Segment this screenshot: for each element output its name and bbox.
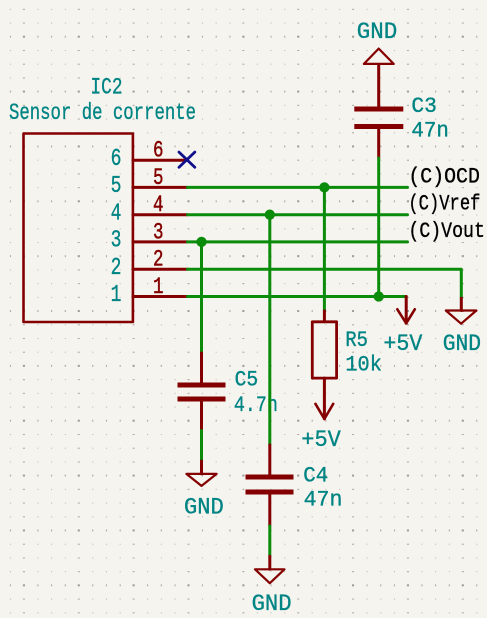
wire pin2 row to right then down (188, 269, 462, 298)
wire R5 column (323, 187, 326, 311)
junction on pin5 row at R5 column (319, 182, 329, 192)
wire pin1 row to +5V (188, 295, 407, 298)
svg-text:GND: GND (252, 591, 292, 618)
svg-text:GND: GND (443, 331, 481, 358)
pin 4 of IC2 (133, 213, 188, 216)
svg-text:6: 6 (153, 138, 164, 165)
junction on pin1 row at C3 column (374, 291, 384, 301)
IC IC2 body (Sensor de corrente) (24, 134, 133, 323)
wire pin4 row to label (C)Vref (188, 213, 408, 216)
svg-text:2: 2 (111, 255, 122, 282)
svg-text:3: 3 (153, 219, 164, 246)
power symbol GND (top, above C3) (364, 49, 394, 107)
svg-text:Sensor de corrente: Sensor de corrente (9, 100, 196, 127)
svg-text:4: 4 (111, 200, 122, 227)
svg-text:10k: 10k (345, 352, 382, 377)
power symbol GND (bottom, below C4) (255, 556, 285, 583)
svg-text:5: 5 (153, 165, 164, 192)
capacitor C5 (178, 353, 226, 431)
svg-text:5: 5 (111, 173, 122, 200)
svg-text:GND: GND (357, 19, 398, 46)
wire C4 column (268, 215, 271, 445)
pin 3 of IC2 (133, 240, 188, 243)
pin 6 of IC2 (133, 159, 188, 162)
junction on pin4 row at C4 column (265, 210, 275, 220)
pin 2 of IC2 (133, 268, 188, 271)
svg-text:+5V: +5V (383, 331, 422, 358)
wire C3 column down to pin1 row (377, 158, 380, 297)
svg-text:4: 4 (153, 192, 164, 219)
svg-text:C3: C3 (411, 94, 437, 119)
svg-text:3: 3 (111, 228, 122, 255)
resistor R5 (312, 311, 336, 378)
pin 5 of IC2 (133, 186, 188, 189)
svg-text:47n: 47n (411, 118, 449, 143)
wire C5 to GND (200, 431, 203, 462)
capacitor C3 (354, 107, 403, 159)
svg-text:(C)OCD: (C)OCD (408, 164, 480, 189)
capacitor C4 (246, 445, 294, 526)
svg-text:R5: R5 (345, 328, 368, 353)
svg-text:1: 1 (111, 282, 122, 309)
svg-text:6: 6 (111, 146, 122, 173)
svg-text:(C)Vref: (C)Vref (408, 192, 480, 217)
power symbol +5V (right of pin1 wire, arrow down) (397, 297, 415, 324)
svg-text:1: 1 (153, 274, 164, 301)
power symbol GND (far right, from pin2 wire) (446, 298, 477, 323)
pin 1 of IC2 (133, 295, 188, 298)
svg-text:GND: GND (184, 495, 224, 522)
svg-text:C4: C4 (303, 464, 328, 489)
svg-text:47n: 47n (304, 487, 343, 512)
wire C4 to GND (268, 526, 271, 556)
wire C5 column (200, 242, 203, 353)
svg-text:2: 2 (153, 247, 164, 274)
wire pin5 row to label (C)OCD (188, 186, 408, 189)
svg-text:(C)Vout: (C)Vout (408, 219, 485, 244)
wire pin3 row to label (C)Vout (188, 240, 408, 243)
svg-text:+5V: +5V (301, 427, 341, 454)
power symbol GND (below C5) (186, 461, 216, 486)
svg-text:C5: C5 (235, 368, 259, 393)
junction on pin3 row at C5 column (196, 237, 206, 247)
power symbol +5V (below R5, arrow down) (316, 378, 334, 419)
svg-text:IC2: IC2 (91, 74, 123, 101)
no-connect X on pin 6 (179, 152, 195, 167)
